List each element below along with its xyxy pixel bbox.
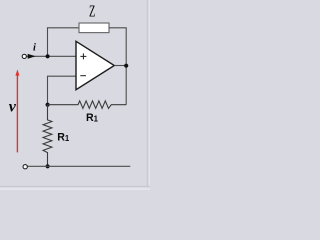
resistor R1 horizontal [48, 101, 127, 109]
node B junction [46, 103, 50, 107]
svg-text:R1: R1 [57, 131, 70, 143]
svg-text:v: v [9, 99, 17, 116]
wire inverting input to node B [48, 76, 77, 105]
impedance Z [79, 23, 109, 33]
bottom node junction [46, 164, 50, 168]
resistor R1 vertical [43, 105, 52, 167]
bottom rail wire [27, 165, 130, 167]
svg-text:R1: R1 [86, 112, 99, 124]
wire input to non-inverting input [27, 55, 77, 57]
bottom terminal [23, 165, 27, 169]
wire Z right and down to output column [109, 28, 126, 105]
wire op-amp output [114, 65, 126, 67]
voltage arrow v [15, 69, 19, 152]
wire node A up and right to Z [48, 28, 80, 57]
input terminal [22, 54, 26, 58]
current arrow i [28, 54, 36, 59]
svg-text:i: i [33, 43, 36, 54]
output node junction [124, 64, 128, 68]
svg-text:Z: Z [89, 2, 95, 21]
node A junction [46, 54, 50, 58]
op-amp U1 [76, 41, 114, 89]
